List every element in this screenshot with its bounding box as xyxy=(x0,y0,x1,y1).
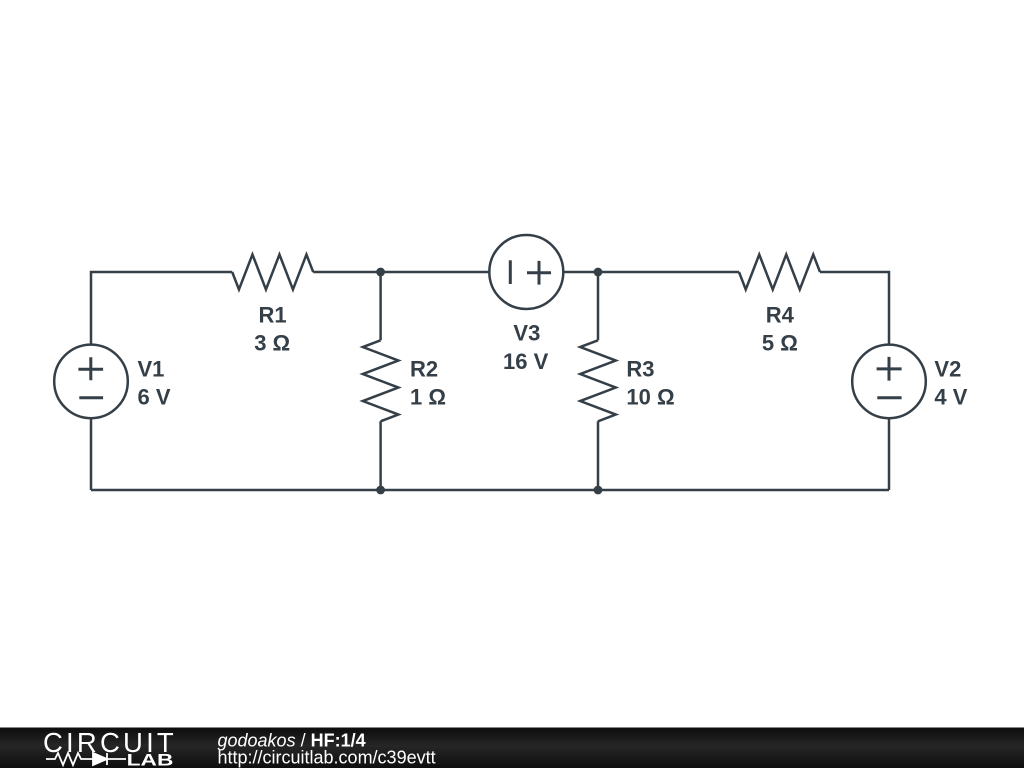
junction node D (bottom) xyxy=(594,486,603,495)
wire: bottom rail xyxy=(91,489,889,492)
wire: V1 bottom to bottom-left corner xyxy=(90,418,93,490)
svg-text:R2: R2 xyxy=(410,357,438,382)
voltage source V2 xyxy=(852,345,926,419)
svg-text:LAB: LAB xyxy=(127,751,174,768)
footer bar xyxy=(0,728,1024,768)
wire: R3 bottom to bottom rail xyxy=(597,421,600,490)
logo resistor-diode glyph xyxy=(46,753,126,765)
svg-text:5 Ω: 5 Ω xyxy=(762,331,798,356)
svg-text:R1: R1 xyxy=(259,303,287,328)
voltage source V3 xyxy=(489,235,563,309)
wire: V2 bottom to bottom rail xyxy=(888,418,891,490)
wire: R1 right to node A xyxy=(313,271,380,274)
svg-text:V1: V1 xyxy=(138,357,165,382)
svg-text:10 Ω: 10 Ω xyxy=(626,385,674,410)
wire: R4 right to top-right corner to V2 top xyxy=(820,272,889,345)
resistor R3 xyxy=(580,340,616,421)
svg-text:1 Ω: 1 Ω xyxy=(410,385,446,410)
wire: node A to V3 left terminal xyxy=(381,271,490,274)
wire: top-left corner (V1 top to R1 left) xyxy=(91,272,232,345)
svg-text:4 V: 4 V xyxy=(934,385,967,410)
junction node C (bottom) xyxy=(376,486,385,495)
svg-text:http://circuitlab.com/c39evtt: http://circuitlab.com/c39evtt xyxy=(218,747,436,767)
resistor R2 xyxy=(363,340,399,421)
svg-text:V3: V3 xyxy=(513,321,540,346)
svg-text:R3: R3 xyxy=(626,357,654,382)
wire: node A down to R2 top xyxy=(379,272,382,340)
wire: V3 right terminal to node B xyxy=(563,271,598,274)
resistor R1 xyxy=(232,255,313,290)
svg-text:3 Ω: 3 Ω xyxy=(254,331,290,356)
voltage source V1 xyxy=(54,345,128,419)
svg-text:6 V: 6 V xyxy=(138,385,171,410)
svg-text:R4: R4 xyxy=(766,303,795,328)
svg-text:16 V: 16 V xyxy=(503,349,549,374)
junction node B (top) xyxy=(594,268,603,277)
wire: node B to R4 left xyxy=(598,271,739,274)
resistor R4 xyxy=(739,255,820,290)
wire: node B down to R3 top xyxy=(597,272,600,340)
wire: R2 bottom to bottom rail xyxy=(379,421,382,490)
junction node A (top) xyxy=(376,268,385,277)
svg-text:V2: V2 xyxy=(934,357,961,382)
